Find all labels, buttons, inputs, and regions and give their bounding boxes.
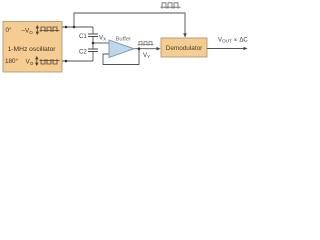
svg-text:0°: 0°	[6, 26, 13, 34]
svg-text:C1: C1	[79, 33, 87, 40]
svg-text:VX: VX	[99, 35, 106, 42]
svg-text:C2: C2	[79, 49, 87, 56]
svg-text:Buffer: Buffer	[116, 37, 132, 43]
svg-text:180°: 180°	[5, 57, 19, 65]
svg-text:Demodulator: Demodulator	[166, 45, 203, 52]
svg-text:1-MHz oscillator: 1-MHz oscillator	[8, 46, 57, 53]
svg-text:VY: VY	[143, 52, 150, 59]
svg-text:VOUT ∝ ΔC: VOUT ∝ ΔC	[218, 37, 248, 44]
